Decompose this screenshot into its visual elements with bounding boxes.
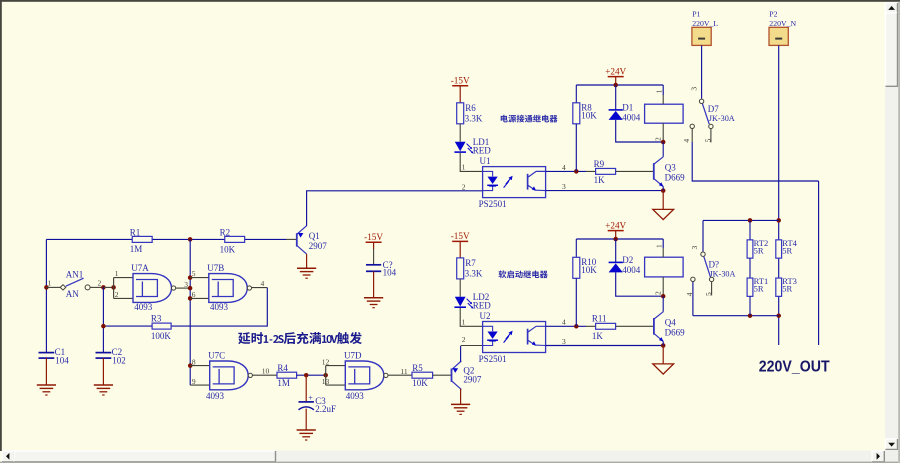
svg-text:220V_OUT: 220V_OUT [759, 359, 830, 376]
wire R7 to LD2 [459, 279, 461, 297]
capacitor C2 [96, 352, 112, 354]
connector P1 [692, 27, 711, 45]
svg-text:3.3K: 3.3K [465, 268, 483, 278]
svg-text:P1: P1 [692, 10, 700, 19]
U2 pin 4 wire [546, 325, 586, 327]
svg-text:4093: 4093 [134, 302, 153, 312]
annotation text: power-on relay [501, 115, 558, 123]
optocoupler U2 [483, 322, 546, 353]
wire RT bottom rail [693, 315, 779, 317]
svg-text:3: 3 [562, 182, 566, 191]
svg-text:U7C: U7C [208, 351, 225, 361]
svg-text:10K: 10K [581, 265, 597, 275]
svg-text:PS2501: PS2501 [479, 199, 507, 209]
LED LD1 [455, 142, 466, 152]
svg-text:220V_L: 220V_L [692, 19, 718, 28]
ground under Q3 [653, 209, 674, 219]
wire R3 to node 2 branch [103, 325, 152, 327]
thermistor RT3 [776, 278, 782, 296]
thermistor RT2 [749, 220, 751, 239]
svg-text:D7: D7 [708, 104, 719, 114]
svg-text:-15V: -15V [451, 76, 470, 86]
svg-text:5R: 5R [754, 284, 764, 294]
svg-text:1: 1 [462, 163, 466, 172]
svg-text:4: 4 [562, 318, 566, 327]
svg-text:R4: R4 [277, 363, 288, 373]
svg-text:+24V: +24V [605, 220, 626, 230]
svg-text:R11: R11 [592, 314, 607, 324]
svg-text:1K: 1K [592, 331, 604, 341]
svg-text:R7: R7 [465, 258, 476, 268]
scrollbar: right button [872, 451, 884, 462]
svg-text:AN: AN [66, 289, 79, 299]
svg-text:1: 1 [462, 318, 466, 327]
svg-text:102: 102 [112, 355, 126, 365]
U7B input stubs [188, 275, 193, 280]
wire +24V rail (lower) [576, 238, 663, 240]
U7B output wire (pin 4) to R3 [251, 287, 267, 289]
scrollbar: up button [886, 3, 898, 14]
svg-text:13: 13 [322, 377, 330, 386]
U7A output pin to node 3 [175, 287, 190, 289]
svg-text:R2: R2 [220, 228, 231, 238]
svg-text:8: 8 [192, 357, 196, 366]
svg-text:220V_N: 220V_N [769, 19, 796, 28]
relay K1 pin 1 [662, 85, 664, 95]
svg-text:D?: D? [709, 259, 720, 269]
svg-text:1: 1 [654, 89, 663, 93]
svg-text:11: 11 [400, 367, 407, 376]
svg-text:3: 3 [562, 337, 566, 346]
resistor R10 [575, 239, 577, 257]
resistor R8 [575, 85, 577, 103]
svg-text:+: + [308, 393, 313, 402]
annotation text: delay note [238, 332, 362, 344]
svg-text:4004: 4004 [622, 112, 641, 122]
ground under Q2 [451, 403, 470, 405]
U7C output pin 10 to R4 [252, 374, 277, 376]
svg-text:4: 4 [682, 139, 691, 143]
relay contact D7 [699, 99, 703, 103]
U1 pin 3 wire [546, 190, 664, 192]
svg-text:10K: 10K [220, 244, 236, 254]
nand gate U7D [345, 361, 384, 390]
junction Q4 emitter / net 3 [661, 343, 666, 348]
svg-text:2.2uF: 2.2uF [315, 404, 336, 414]
diode D2 [615, 239, 617, 262]
svg-text:+24V: +24V [605, 66, 626, 76]
svg-text:JK-30A: JK-30A [709, 114, 735, 123]
scrollbar corner [885, 450, 900, 463]
resistor R1 [132, 236, 152, 242]
node 3 vertical wire [189, 239, 191, 385]
svg-text:R9: R9 [594, 159, 605, 169]
svg-text:5R: 5R [754, 245, 764, 255]
capacitor C1 [39, 352, 55, 354]
svg-text:U7B: U7B [207, 263, 224, 273]
wire node 2 to U7A inputs [101, 285, 106, 290]
U7A input tie [113, 278, 115, 299]
svg-text:2: 2 [654, 137, 663, 141]
scrollbar: left button [2, 451, 14, 462]
svg-text:1: 1 [115, 269, 119, 278]
svg-text:1M: 1M [277, 378, 290, 388]
wire Q1 collector to ground [306, 254, 308, 268]
capacitor C? [366, 264, 381, 266]
svg-text:4: 4 [685, 292, 694, 296]
relay K1 coil [645, 104, 684, 123]
capacitor C3 (electrolytic) [305, 375, 307, 402]
window border top/left/right/bottom [0, 0, 900, 2]
svg-text:6: 6 [192, 290, 196, 299]
wire Q2 emitter up to U2 pin 2 [460, 346, 462, 362]
svg-text:PS2501: PS2501 [479, 354, 507, 364]
svg-text:D669: D669 [665, 327, 685, 337]
wire R6 to LD1 [459, 124, 461, 142]
resistor R6 [457, 103, 464, 124]
wire contact D7 pin 4 to output [692, 142, 818, 181]
svg-text:10: 10 [262, 367, 270, 376]
svg-text:2: 2 [462, 183, 466, 192]
svg-text:-15V: -15V [364, 232, 383, 242]
relay K2 pin 2 [662, 277, 664, 296]
optocoupler U1 [483, 167, 546, 198]
U7D input tie [325, 366, 327, 386]
scrollbar: horizontal track [2, 451, 885, 463]
transistor Q4 [653, 318, 655, 335]
resistor R11 [596, 323, 616, 329]
U1 pin 4 wire [546, 170, 586, 172]
svg-text:U7A: U7A [131, 263, 149, 273]
wire Q3 emitter to ground [662, 191, 664, 210]
svg-text:2: 2 [115, 290, 119, 299]
svg-text:4093: 4093 [206, 391, 225, 401]
nand gate U7A [133, 274, 172, 303]
relay K1 pin 2 [662, 123, 664, 142]
resistor R4 [277, 372, 297, 378]
svg-text:U7D: U7D [344, 351, 362, 361]
resistor R2 [225, 236, 245, 242]
transistor Q2 [433, 374, 451, 376]
wire P2 down to RT network and output [778, 45, 780, 345]
wire node 2 down to C2/R3 [102, 287, 104, 352]
thermistor RT1 [749, 258, 751, 278]
svg-text:5: 5 [704, 138, 713, 142]
junction node3 on top rail [188, 237, 193, 242]
svg-text:U2: U2 [480, 311, 491, 321]
svg-text:-15V: -15V [451, 231, 470, 241]
svg-text:2: 2 [462, 335, 466, 344]
svg-text:104: 104 [383, 268, 397, 278]
svg-text:3: 3 [690, 246, 699, 250]
transistor Q1 [296, 233, 298, 246]
U7C input stubs [188, 363, 193, 368]
svg-text:1K: 1K [594, 175, 606, 185]
svg-text:5R: 5R [782, 284, 792, 294]
svg-text:2: 2 [654, 291, 663, 295]
U7D output pin 11 to R5 [388, 374, 412, 376]
scrollbar: vertical track [885, 2, 898, 450]
relay contact D? (soft start) [702, 220, 704, 251]
wire left branch down to AN1/C1 [45, 239, 47, 352]
svg-text:Q3: Q3 [665, 162, 676, 172]
svg-text:2907: 2907 [309, 241, 328, 251]
relay K2 pin 1 [662, 239, 664, 248]
wire Q4 emitter to ground [662, 346, 664, 364]
wire top rail node A (R1/R2 row) [46, 238, 286, 240]
svg-text:5R: 5R [782, 245, 792, 255]
svg-text:R1: R1 [130, 228, 141, 238]
switch AN1 [44, 285, 49, 290]
svg-text:RED: RED [473, 300, 492, 310]
svg-text:R3: R3 [151, 313, 162, 323]
svg-text:D1: D1 [622, 102, 633, 112]
svg-text:1M: 1M [130, 244, 143, 254]
svg-text:Q1: Q1 [309, 231, 320, 241]
resistor R7 [457, 258, 464, 279]
thermistor RT4 [776, 240, 782, 258]
svg-text:4004: 4004 [622, 265, 641, 275]
nand gate U7B [209, 274, 248, 303]
svg-text:D2: D2 [622, 255, 633, 265]
svg-text:RED: RED [473, 145, 492, 155]
svg-text:R5: R5 [412, 363, 423, 373]
svg-text:3: 3 [184, 280, 188, 289]
wire +24V rail (upper) [576, 84, 663, 86]
ground under Q4 [653, 364, 674, 374]
annotation text: soft-start relay [499, 270, 548, 278]
ground under C? [373, 271, 375, 297]
scrollbar: horizontal thumb [14, 451, 276, 462]
LED LD2 [455, 297, 466, 307]
ground under Q1 [297, 267, 316, 269]
wire P1 to contact D7 [701, 45, 703, 98]
svg-text:P2: P2 [769, 10, 777, 19]
svg-text:104: 104 [55, 355, 69, 365]
scrollbar: vertical thumb [886, 13, 898, 87]
svg-text:4: 4 [562, 163, 566, 172]
svg-text:D669: D669 [665, 172, 685, 182]
junction Q3 emitter / net 3 [661, 188, 666, 193]
scrollbar: down button [886, 439, 898, 450]
svg-text:5: 5 [704, 292, 713, 296]
connector P2 [769, 27, 788, 45]
wire Q2 collector to ground [460, 389, 462, 405]
ground under C2 [94, 384, 113, 386]
svg-text:100K: 100K [151, 331, 172, 341]
wire LD1 to U1 pin 1 [460, 153, 482, 172]
svg-text:5: 5 [192, 269, 196, 278]
wire R4 to U7D inputs [297, 374, 326, 376]
svg-text:2907: 2907 [463, 375, 482, 385]
ground under C1 [37, 384, 56, 386]
wire RT top rail [703, 219, 779, 221]
U2 pin 3 wire [546, 345, 664, 347]
ground under C3 [297, 429, 316, 431]
svg-text:3.3K: 3.3K [465, 113, 483, 123]
svg-text:4093: 4093 [210, 302, 229, 312]
diode D1 [615, 85, 617, 110]
svg-text:12: 12 [322, 357, 330, 366]
wire LD2 to U2 pin 1 [460, 308, 482, 326]
transistor Q3 [653, 163, 655, 180]
svg-text:JK-30A: JK-30A [710, 269, 736, 278]
resistor R3 [152, 323, 171, 329]
svg-text:3: 3 [689, 87, 698, 91]
resistor R9 [596, 168, 616, 174]
svg-text:R6: R6 [465, 103, 476, 113]
svg-text:10K: 10K [412, 378, 428, 388]
svg-text:2: 2 [98, 279, 102, 288]
svg-text:AN1: AN1 [66, 270, 84, 280]
svg-text:4093: 4093 [346, 391, 365, 401]
svg-text:1: 1 [48, 278, 52, 287]
svg-text:1: 1 [654, 244, 663, 248]
relay K2 coil [645, 257, 684, 277]
resistor R5 [412, 372, 433, 378]
svg-text:U1: U1 [480, 156, 491, 166]
svg-text:Q4: Q4 [665, 317, 676, 327]
wire Q1 emitter up to net 2 [307, 191, 482, 226]
svg-text:10K: 10K [581, 111, 597, 121]
nand gate U7C [210, 361, 249, 390]
svg-text:4: 4 [261, 279, 265, 288]
svg-text:9: 9 [192, 377, 196, 386]
